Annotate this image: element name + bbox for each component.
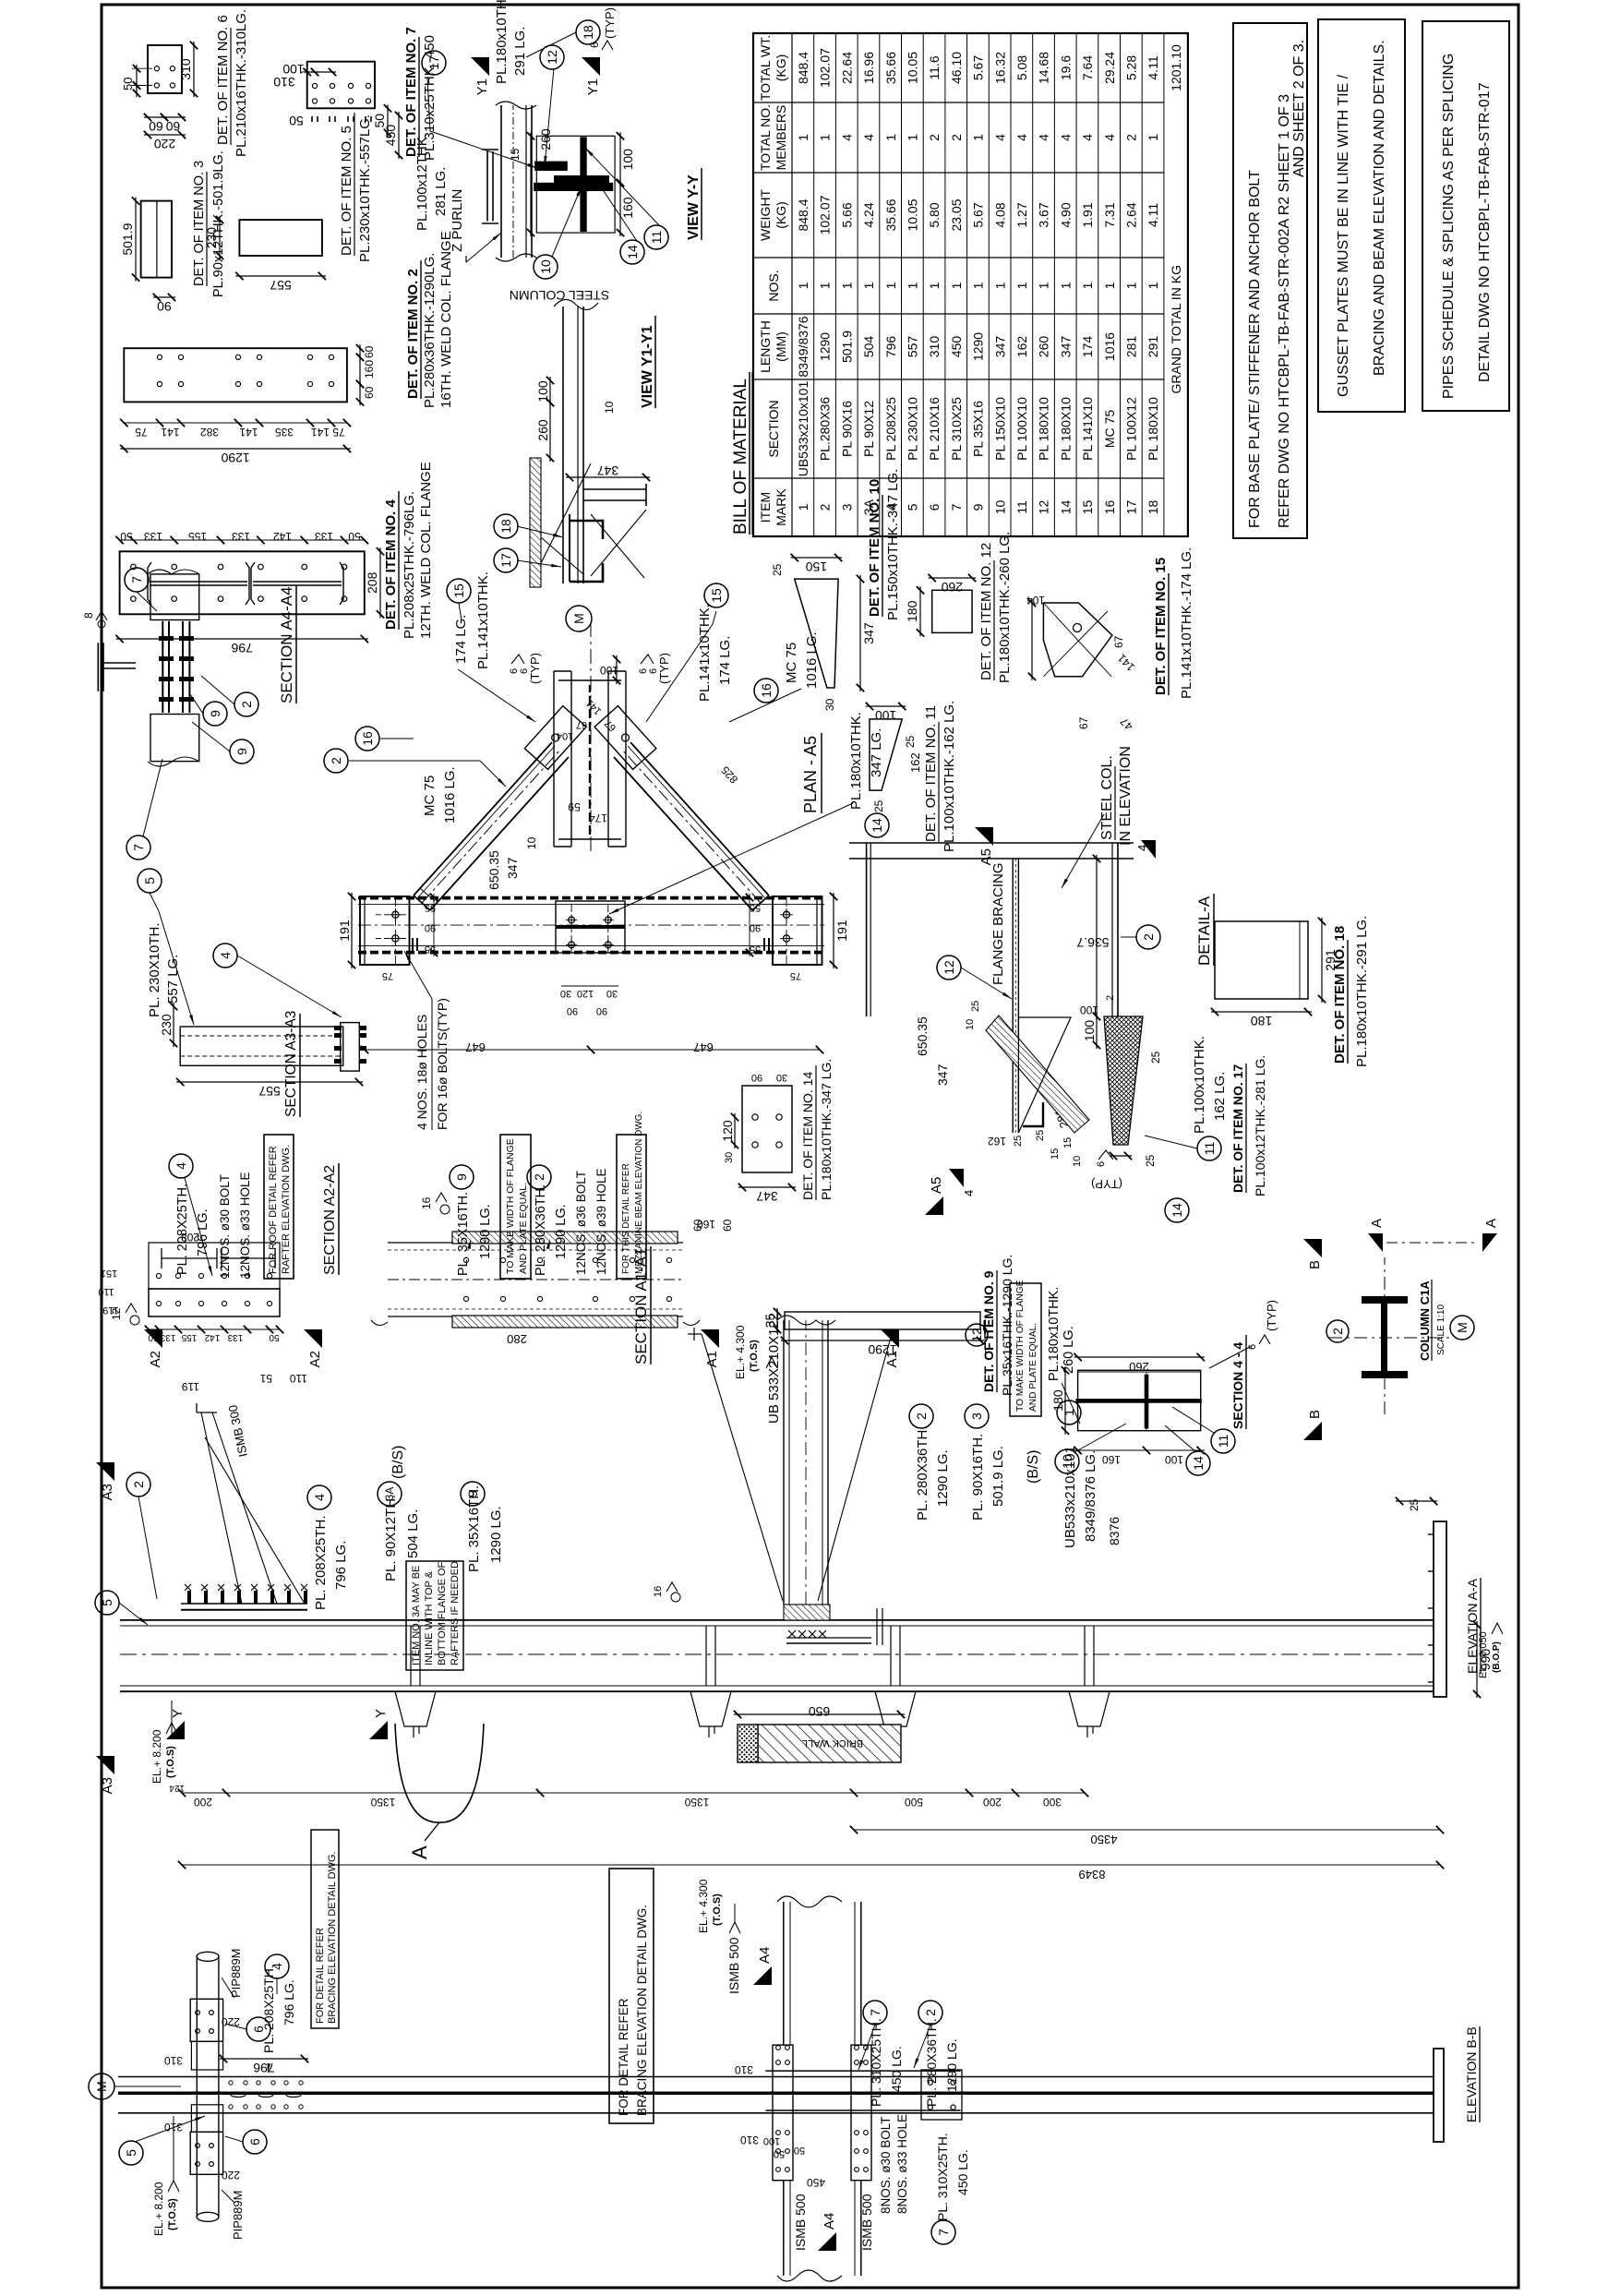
svg-text:100: 100 bbox=[875, 708, 897, 723]
svg-text:347 LG.: 347 LG. bbox=[869, 728, 884, 777]
svg-text:796: 796 bbox=[231, 641, 253, 655]
section A1-A1 beam band bbox=[388, 1316, 683, 1317]
svg-text:DET. OF ITEM NO. 2: DET. OF ITEM NO. 2 bbox=[405, 269, 421, 399]
VIEW Y1-Y1 purlin section bbox=[570, 563, 603, 582]
svg-text:1: 1 bbox=[883, 282, 898, 289]
svg-text:100: 100 bbox=[600, 664, 618, 677]
svg-text:141: 141 bbox=[1115, 651, 1137, 673]
svg-text:EL.+ 4.300: EL.+ 4.300 bbox=[697, 1879, 710, 1933]
svg-text:B: B bbox=[1307, 1410, 1323, 1419]
svg-text:16TH. WELD COL. FLANGE: 16TH. WELD COL. FLANGE bbox=[438, 231, 454, 408]
svg-text:PL.150x10THK.-347 LG.: PL.150x10THK.-347 LG. bbox=[885, 469, 901, 620]
svg-text:SECTION 4 - 4: SECTION 4 - 4 bbox=[1230, 1342, 1245, 1429]
svg-text:18: 18 bbox=[581, 25, 595, 40]
column C1A bubbles bbox=[1326, 1320, 1349, 1342]
svg-text:A2: A2 bbox=[148, 1351, 163, 1367]
svg-text:SECTION: SECTION bbox=[766, 400, 781, 457]
elevation B-B base plate bbox=[1434, 2049, 1444, 2142]
svg-text:650.35: 650.35 bbox=[915, 1016, 930, 1056]
svg-text:848.4: 848.4 bbox=[796, 198, 810, 231]
svg-text:500: 500 bbox=[905, 1796, 923, 1809]
svg-text:60: 60 bbox=[363, 345, 376, 358]
svg-text:DET. OF ITEM NO. 11: DET. OF ITEM NO. 11 bbox=[923, 705, 939, 842]
svg-text:67: 67 bbox=[1112, 635, 1125, 648]
svg-text:1: 1 bbox=[1037, 282, 1051, 289]
svg-text:104: 104 bbox=[1026, 594, 1045, 607]
elevation A-A A3 flags bbox=[96, 1462, 114, 1481]
svg-text:GUSSET PLATES MUST BE IN LINE: GUSSET PLATES MUST BE IN LINE WITH TIE / bbox=[1336, 74, 1351, 397]
elevation A-A A1 flags bbox=[701, 1329, 719, 1348]
svg-text:5: 5 bbox=[124, 2149, 138, 2157]
BOM table grid bbox=[753, 33, 1188, 536]
svg-text:(TYP): (TYP) bbox=[657, 653, 671, 684]
svg-text:1290 LG.: 1290 LG. bbox=[935, 1449, 951, 1507]
svg-text:90: 90 bbox=[751, 1072, 762, 1083]
svg-text:PL 100X10: PL 100X10 bbox=[1014, 397, 1029, 461]
svg-text:SECTION A1-A1: SECTION A1-A1 bbox=[632, 1247, 650, 1364]
detail bracket A callout bbox=[395, 1724, 484, 1822]
svg-text:EL.+ 4.300: EL.+ 4.300 bbox=[734, 1325, 747, 1379]
svg-text:(T.O.S): (T.O.S) bbox=[167, 2198, 178, 2230]
svg-text:19.6: 19.6 bbox=[1058, 55, 1073, 80]
section A4-A4 bubbles bbox=[125, 568, 149, 592]
DET14 plate PL.180x10 bbox=[742, 1086, 792, 1172]
svg-text:PL. 280X36TH.: PL. 280X36TH. bbox=[915, 1425, 930, 1521]
svg-text:102.07: 102.07 bbox=[818, 195, 833, 234]
svg-text:2: 2 bbox=[239, 701, 254, 708]
truss top gusset bbox=[360, 896, 410, 965]
svg-text:1: 1 bbox=[796, 134, 810, 141]
truss center splice plate bbox=[556, 901, 625, 953]
svg-text:10: 10 bbox=[1072, 1156, 1083, 1167]
svg-text:PL.141x10THK.: PL.141x10THK. bbox=[475, 571, 491, 669]
svg-text:PL. 208X25TH.: PL. 208X25TH. bbox=[313, 1515, 329, 1610]
svg-text:1: 1 bbox=[906, 282, 920, 289]
svg-text:8376: 8376 bbox=[1107, 1517, 1122, 1545]
svg-text:A3: A3 bbox=[100, 1777, 115, 1794]
svg-text:14: 14 bbox=[1170, 1203, 1184, 1218]
boxed note pipes schedule bbox=[1422, 21, 1509, 411]
svg-text:14: 14 bbox=[625, 245, 640, 259]
elevation A-A top cap plate with anchor bolts bbox=[181, 1609, 307, 1611]
svg-text:COLUMN C1A: COLUMN C1A bbox=[1418, 1280, 1432, 1361]
svg-text:DET. OF ITEM NO. 6: DET. OF ITEM NO. 6 bbox=[215, 15, 231, 145]
svg-text:MC 75: MC 75 bbox=[784, 643, 799, 683]
svg-text:STEEL COLUMN: STEEL COLUMN bbox=[510, 288, 609, 303]
svg-text:DETAIL DWG NO HTCBPL-TB-FAB-ST: DETAIL DWG NO HTCBPL-TB-FAB-STR-017 bbox=[1477, 82, 1493, 382]
svg-text:30: 30 bbox=[776, 1072, 787, 1083]
truss apex plate top bbox=[524, 706, 586, 770]
svg-text:30: 30 bbox=[560, 988, 571, 999]
elevation A-A base dims bbox=[1476, 1621, 1478, 1698]
svg-text:5: 5 bbox=[100, 1599, 114, 1606]
svg-text:55: 55 bbox=[750, 944, 761, 955]
svg-text:25: 25 bbox=[1408, 1498, 1421, 1511]
svg-text:347: 347 bbox=[935, 1064, 950, 1086]
svg-text:1: 1 bbox=[971, 282, 986, 289]
svg-text:155: 155 bbox=[188, 530, 207, 543]
svg-text:4: 4 bbox=[839, 134, 854, 141]
VIEW Y1-Y1 column bbox=[562, 307, 564, 583]
truss vertical dim 647 bbox=[365, 1049, 820, 1051]
svg-text:200: 200 bbox=[194, 1796, 212, 1809]
svg-text:150: 150 bbox=[806, 559, 828, 574]
svg-text:1: 1 bbox=[1146, 282, 1160, 289]
svg-text:17: 17 bbox=[498, 553, 513, 568]
svg-text:PL.100x12THK.: PL.100x12THK. bbox=[414, 133, 430, 231]
svg-text:8349: 8349 bbox=[1079, 1868, 1106, 1881]
svg-text:100: 100 bbox=[1165, 1453, 1183, 1466]
svg-text:647: 647 bbox=[465, 1040, 486, 1054]
svg-text:12NOS. ø36 BOLT: 12NOS. ø36 BOLT bbox=[574, 1171, 588, 1275]
svg-text:1: 1 bbox=[1146, 134, 1160, 141]
svg-text:PL. 230X10TH.: PL. 230X10TH. bbox=[147, 922, 162, 1017]
DET6 plate PL.210x16 bbox=[148, 45, 182, 93]
section A4-A4 tee bbox=[97, 643, 99, 691]
svg-text:(T.O.S): (T.O.S) bbox=[712, 1893, 723, 1926]
detail-A column flanges bbox=[866, 843, 868, 1016]
elevation A-A bubbles 2 5 bbox=[126, 1473, 150, 1497]
svg-text:504: 504 bbox=[861, 336, 876, 358]
truss grid M line bbox=[590, 620, 592, 851]
svg-text:4: 4 bbox=[992, 134, 1007, 141]
svg-text:1: 1 bbox=[796, 282, 810, 289]
svg-text:4: 4 bbox=[1014, 134, 1029, 141]
pipe brace PIP889M crossing bbox=[196, 1956, 198, 2217]
section A2-A2 dim chain bbox=[149, 1328, 280, 1330]
svg-text:11.6: 11.6 bbox=[927, 55, 942, 79]
section A3-A3 dims bbox=[173, 1003, 174, 1047]
svg-text:119: 119 bbox=[102, 1304, 119, 1316]
svg-text:PL 180X10: PL 180X10 bbox=[1058, 397, 1073, 461]
svg-text:796: 796 bbox=[883, 336, 898, 358]
svg-text:PL.230x10THK.-557LG.: PL.230x10THK.-557LG. bbox=[357, 114, 373, 262]
svg-text:(KG): (KG) bbox=[774, 201, 788, 229]
svg-text:PLAN - A5: PLAN - A5 bbox=[801, 736, 820, 813]
svg-text:2: 2 bbox=[914, 1412, 929, 1420]
VIEW Y-Y cleat plate bbox=[486, 151, 488, 222]
svg-text:4: 4 bbox=[962, 1190, 976, 1196]
column C1A A flags bbox=[1368, 1233, 1383, 1252]
svg-text:162: 162 bbox=[988, 1135, 1006, 1148]
svg-text:PL 230X10: PL 230X10 bbox=[906, 397, 920, 461]
svg-text:60: 60 bbox=[721, 1219, 734, 1232]
VIEW Y1-Y1 brace hatched bbox=[530, 458, 541, 587]
svg-text:100: 100 bbox=[535, 380, 550, 403]
svg-text:17: 17 bbox=[1124, 500, 1139, 515]
DET11 plate PL.100x10 trapezoid bbox=[870, 719, 902, 790]
svg-text:10: 10 bbox=[603, 401, 616, 414]
truss apex plate bottom bbox=[594, 706, 656, 770]
svg-text:220: 220 bbox=[222, 2169, 240, 2182]
svg-text:PL 310X25: PL 310X25 bbox=[949, 397, 964, 461]
svg-text:12: 12 bbox=[942, 960, 956, 975]
detail-A bubbles bottom bbox=[1197, 1136, 1221, 1160]
svg-text:(TYP): (TYP) bbox=[1091, 1177, 1122, 1191]
svg-text:2: 2 bbox=[923, 2009, 938, 2016]
svg-text:25: 25 bbox=[1144, 1154, 1157, 1167]
svg-text:25: 25 bbox=[771, 563, 784, 576]
svg-text:MC 75: MC 75 bbox=[1102, 410, 1117, 448]
svg-text:ELEVATION B-B: ELEVATION B-B bbox=[1464, 2026, 1479, 2122]
svg-text:12TH. WELD COL. FLANGE: 12TH. WELD COL. FLANGE bbox=[418, 462, 434, 639]
svg-text:8: 8 bbox=[82, 612, 95, 619]
svg-text:825: 825 bbox=[718, 763, 740, 786]
svg-text:PL. 208X25TH.: PL. 208X25TH. bbox=[175, 1184, 190, 1275]
svg-text:DET. OF ITEM NO. 17: DET. OF ITEM NO. 17 bbox=[1230, 1064, 1245, 1193]
svg-text:8349/8376: 8349/8376 bbox=[796, 316, 810, 377]
svg-text:15: 15 bbox=[1062, 1137, 1074, 1148]
svg-text:DET. OF ITEM NO. 5: DET. OF ITEM NO. 5 bbox=[339, 126, 354, 256]
svg-text:25: 25 bbox=[1149, 1051, 1162, 1064]
svg-text:100: 100 bbox=[763, 2135, 780, 2146]
svg-text:100: 100 bbox=[1080, 1004, 1098, 1016]
svg-text:6: 6 bbox=[927, 503, 942, 511]
svg-text:75: 75 bbox=[332, 426, 345, 439]
svg-text:2: 2 bbox=[949, 134, 964, 141]
svg-text:11: 11 bbox=[1014, 500, 1029, 514]
svg-text:RAFTER ELEVATION DWG.: RAFTER ELEVATION DWG. bbox=[281, 1145, 292, 1274]
svg-text:5.67: 5.67 bbox=[971, 55, 986, 80]
svg-text:557: 557 bbox=[906, 336, 920, 358]
Y1 section flags bbox=[471, 57, 489, 76]
svg-text:WEIGHT: WEIGHT bbox=[758, 189, 773, 241]
svg-text:PL 35X16: PL 35X16 bbox=[971, 401, 986, 457]
svg-text:141: 141 bbox=[161, 426, 179, 439]
svg-text:DET. OF ITEM NO. 14: DET. OF ITEM NO. 14 bbox=[800, 1072, 815, 1200]
svg-text:1: 1 bbox=[1080, 282, 1095, 289]
elevation A-A splice plates bbox=[784, 1605, 830, 1620]
svg-text:SECTION A3-A3: SECTION A3-A3 bbox=[283, 1011, 299, 1117]
detail-A gusset below bbox=[1018, 1017, 1071, 1133]
svg-text:30: 30 bbox=[606, 988, 618, 999]
svg-text:110: 110 bbox=[98, 1286, 114, 1297]
svg-text:PL 180X10: PL 180X10 bbox=[1037, 397, 1051, 461]
detail-A A5 flags bbox=[975, 827, 993, 846]
svg-text:141: 141 bbox=[584, 697, 604, 716]
section A1-A1 end waves bbox=[371, 1320, 388, 1326]
svg-text:7: 7 bbox=[868, 2009, 882, 2016]
DET2 dims bbox=[124, 422, 347, 424]
svg-text:12NOS. ø33 HOLE: 12NOS. ø33 HOLE bbox=[238, 1172, 252, 1279]
svg-text:650: 650 bbox=[809, 1704, 831, 1719]
svg-text:UB533x210x101: UB533x210x101 bbox=[796, 381, 810, 477]
svg-text:FOR THIS DETAIL REFER: FOR THIS DETAIL REFER bbox=[621, 1163, 631, 1274]
svg-text:151: 151 bbox=[101, 1268, 117, 1279]
DET7 plate PL.310x25 bbox=[307, 62, 375, 109]
svg-text:MC 75: MC 75 bbox=[422, 775, 438, 816]
section A4-A4 beam right piece bbox=[150, 574, 199, 620]
svg-text:1290 LG.: 1290 LG. bbox=[944, 2038, 959, 2092]
svg-text:VIEW Y1-Y1: VIEW Y1-Y1 bbox=[640, 325, 655, 408]
svg-text:335: 335 bbox=[275, 426, 294, 439]
svg-text:50: 50 bbox=[120, 530, 133, 543]
DET4 plate PL.208x25 bbox=[120, 551, 365, 614]
elevation A-A rafter stub UB533x122 bbox=[783, 1320, 785, 1605]
svg-text:10.05: 10.05 bbox=[906, 198, 920, 231]
svg-text:Y1: Y1 bbox=[585, 78, 601, 95]
svg-text:280: 280 bbox=[507, 1332, 527, 1346]
DET4 I-beam profiles bbox=[148, 562, 151, 605]
svg-text:9: 9 bbox=[454, 1173, 469, 1181]
svg-text:M: M bbox=[1455, 1322, 1470, 1333]
svg-text:2: 2 bbox=[1330, 1328, 1345, 1335]
svg-text:UB533x210x101: UB533x210x101 bbox=[1062, 1446, 1078, 1548]
svg-text:ISMB 500: ISMB 500 bbox=[726, 1937, 741, 1994]
svg-text:450: 450 bbox=[949, 336, 964, 358]
svg-text:IN ELEVATION: IN ELEVATION bbox=[1118, 746, 1134, 846]
svg-text:142: 142 bbox=[273, 530, 292, 543]
svg-text:(B/S): (B/S) bbox=[390, 1446, 406, 1479]
svg-text:60: 60 bbox=[363, 386, 376, 399]
svg-text:450 LG.: 450 LG. bbox=[955, 2149, 970, 2195]
svg-text:504 LG.: 504 LG. bbox=[405, 1509, 421, 1558]
VIEW Y1-Y1 dims bbox=[549, 399, 551, 462]
DET17 plate PL.100x12 hatched taper bbox=[1104, 1016, 1143, 1145]
svg-text:PL. 310X25TH.: PL. 310X25TH. bbox=[935, 2133, 950, 2221]
svg-text:450 LG.: 450 LG. bbox=[889, 2046, 904, 2092]
svg-text:1290 LG.: 1290 LG. bbox=[478, 1204, 493, 1259]
svg-text:BRACING ELEVATION DETAIL DWG.: BRACING ELEVATION DETAIL DWG. bbox=[635, 1905, 649, 2116]
svg-text:(B.O.P): (B.O.P) bbox=[1492, 1641, 1502, 1673]
svg-text:1.27: 1.27 bbox=[1014, 202, 1029, 227]
svg-text:848.4: 848.4 bbox=[796, 52, 810, 84]
svg-text:PL 141X10: PL 141X10 bbox=[1080, 397, 1095, 461]
svg-text:PL. 90X12TH.: PL. 90X12TH. bbox=[383, 1495, 399, 1581]
svg-text:A5: A5 bbox=[929, 1177, 944, 1194]
svg-text:1: 1 bbox=[971, 134, 986, 141]
svg-text:4350: 4350 bbox=[1091, 1833, 1118, 1846]
svg-text:FLANGE BRACING: FLANGE BRACING bbox=[990, 862, 1006, 985]
svg-text:(KG): (KG) bbox=[774, 54, 788, 82]
brick wall hatch bbox=[758, 1725, 901, 1762]
detail-A brace hatched diagonal bbox=[986, 1016, 1089, 1133]
svg-text:67: 67 bbox=[603, 717, 618, 733]
section A3-A3 member bbox=[180, 1027, 343, 1065]
svg-text:51: 51 bbox=[259, 1372, 272, 1385]
svg-text:2: 2 bbox=[1141, 933, 1156, 941]
svg-text:(TYP): (TYP) bbox=[1265, 1300, 1278, 1331]
elevation A-A base plate bbox=[1434, 1521, 1446, 1697]
svg-text:BOTTOM FLANGE OF: BOTTOM FLANGE OF bbox=[437, 1561, 448, 1665]
svg-text:12: 12 bbox=[545, 50, 559, 65]
svg-text:A: A bbox=[408, 1845, 431, 1859]
svg-text:50: 50 bbox=[774, 2148, 785, 2159]
svg-text:18: 18 bbox=[498, 519, 513, 534]
svg-text:120: 120 bbox=[577, 988, 594, 999]
svg-text:55: 55 bbox=[425, 944, 436, 955]
svg-text:647: 647 bbox=[693, 1040, 714, 1054]
svg-text:7: 7 bbox=[129, 576, 144, 583]
svg-text:300: 300 bbox=[1043, 1796, 1062, 1809]
svg-text:(B/S): (B/S) bbox=[1026, 1450, 1041, 1484]
svg-text:90: 90 bbox=[157, 299, 172, 314]
VIEW Y-Y item bubbles bbox=[534, 255, 558, 279]
svg-text:4: 4 bbox=[1037, 134, 1051, 141]
svg-text:347: 347 bbox=[1058, 336, 1073, 358]
svg-text:FOR BASE PLATE/ STIFFENER AND: FOR BASE PLATE/ STIFFENER AND ANCHOR BOL… bbox=[1247, 170, 1263, 528]
svg-text:1016: 1016 bbox=[1102, 332, 1117, 361]
svg-text:15: 15 bbox=[709, 588, 724, 603]
svg-text:8349/8376 LG.: 8349/8376 LG. bbox=[1083, 1450, 1098, 1542]
svg-text:PIP889M: PIP889M bbox=[229, 1949, 243, 1998]
svg-text:TO MAKE WIDTH OF FLANGE: TO MAKE WIDTH OF FLANGE bbox=[505, 1138, 516, 1274]
DET10 plate PL.150x10 trapezoid bbox=[795, 579, 838, 688]
svg-text:PL. 310X25TH.: PL. 310X25TH. bbox=[869, 2018, 883, 2107]
svg-text:1: 1 bbox=[796, 503, 810, 511]
svg-text:796 LG.: 796 LG. bbox=[282, 1979, 296, 2026]
truss MC75 diagonal top bbox=[414, 742, 552, 896]
section A2-A2 beam bbox=[149, 1243, 280, 1289]
svg-text:75: 75 bbox=[135, 426, 148, 439]
truss center beam bbox=[553, 671, 555, 847]
svg-text:BRACING ELEVATION DETAIL DWG.: BRACING ELEVATION DETAIL DWG. bbox=[327, 1851, 338, 2024]
svg-text:12: 12 bbox=[1037, 500, 1051, 515]
svg-text:PL.141x10THK.: PL.141x10THK. bbox=[697, 604, 713, 702]
svg-text:291: 291 bbox=[1146, 336, 1160, 358]
svg-text:310: 310 bbox=[178, 58, 193, 80]
svg-text:PL.100x10THK.-162 LG.: PL.100x10THK.-162 LG. bbox=[942, 701, 957, 852]
svg-text:1: 1 bbox=[949, 282, 964, 289]
svg-text:PL.180x10THK.: PL.180x10THK. bbox=[494, 0, 510, 84]
svg-text:16: 16 bbox=[653, 1586, 664, 1597]
pipe crossing plates bbox=[190, 1999, 222, 2041]
svg-text:ISMB 500: ISMB 500 bbox=[793, 2194, 808, 2251]
boxed note bracing elevation 2 bbox=[609, 1869, 654, 2123]
section A3-A3 end plate bbox=[341, 1023, 360, 1072]
svg-text:Z PURLIN: Z PURLIN bbox=[450, 189, 465, 252]
svg-text:A: A bbox=[1369, 1219, 1385, 1228]
svg-text:230: 230 bbox=[204, 227, 219, 249]
svg-text:ISMB 500: ISMB 500 bbox=[859, 2194, 874, 2251]
svg-text:PL 150X10: PL 150X10 bbox=[992, 397, 1007, 461]
svg-text:1: 1 bbox=[1014, 282, 1029, 289]
DET3 plate PL.90x12 bbox=[141, 201, 172, 278]
svg-text:17: 17 bbox=[426, 55, 441, 70]
svg-text:25: 25 bbox=[970, 1001, 981, 1012]
elevation A-A stiffeners and seats bbox=[410, 1626, 412, 1686]
svg-text:11: 11 bbox=[1216, 1435, 1230, 1449]
svg-text:2: 2 bbox=[532, 1173, 546, 1181]
svg-text:3: 3 bbox=[969, 1412, 984, 1420]
svg-text:6: 6 bbox=[1247, 1344, 1258, 1350]
svg-text:22.64: 22.64 bbox=[839, 52, 854, 84]
DET15 plate PL.141x10 hex bbox=[1043, 603, 1112, 677]
elevation A-A column flanges bbox=[120, 1690, 1434, 1692]
svg-text:1: 1 bbox=[818, 134, 833, 141]
svg-text:160: 160 bbox=[620, 197, 635, 219]
svg-text:25: 25 bbox=[1035, 1130, 1046, 1141]
boxed note base plate bbox=[1233, 23, 1307, 538]
svg-text:PL.100x12THK.-281 LG.: PL.100x12THK.-281 LG. bbox=[1253, 1055, 1267, 1196]
svg-text:FOR DETAIL REFER: FOR DETAIL REFER bbox=[617, 1998, 630, 2116]
svg-text:A4: A4 bbox=[822, 2213, 837, 2230]
svg-text:1.91: 1.91 bbox=[1080, 202, 1095, 227]
svg-text:133: 133 bbox=[144, 530, 162, 543]
svg-text:46.10: 46.10 bbox=[949, 52, 964, 84]
svg-text:1: 1 bbox=[883, 134, 898, 141]
svg-text:160: 160 bbox=[363, 360, 376, 379]
svg-text:30: 30 bbox=[823, 698, 836, 711]
svg-text:BRICK WALL: BRICK WALL bbox=[802, 1737, 863, 1749]
detail-A bracing plate bbox=[1012, 859, 1014, 1133]
svg-text:SECTION A4-A4: SECTION A4-A4 bbox=[278, 586, 295, 703]
svg-text:PL.280X36: PL.280X36 bbox=[818, 397, 833, 461]
svg-text:310: 310 bbox=[164, 2054, 183, 2067]
section A1-A1 hatched cover plates bbox=[452, 1316, 678, 1328]
svg-text:DETAIL-A: DETAIL-A bbox=[1195, 896, 1213, 966]
svg-text:FOR DETAIL REFER: FOR DETAIL REFER bbox=[315, 1928, 326, 2024]
